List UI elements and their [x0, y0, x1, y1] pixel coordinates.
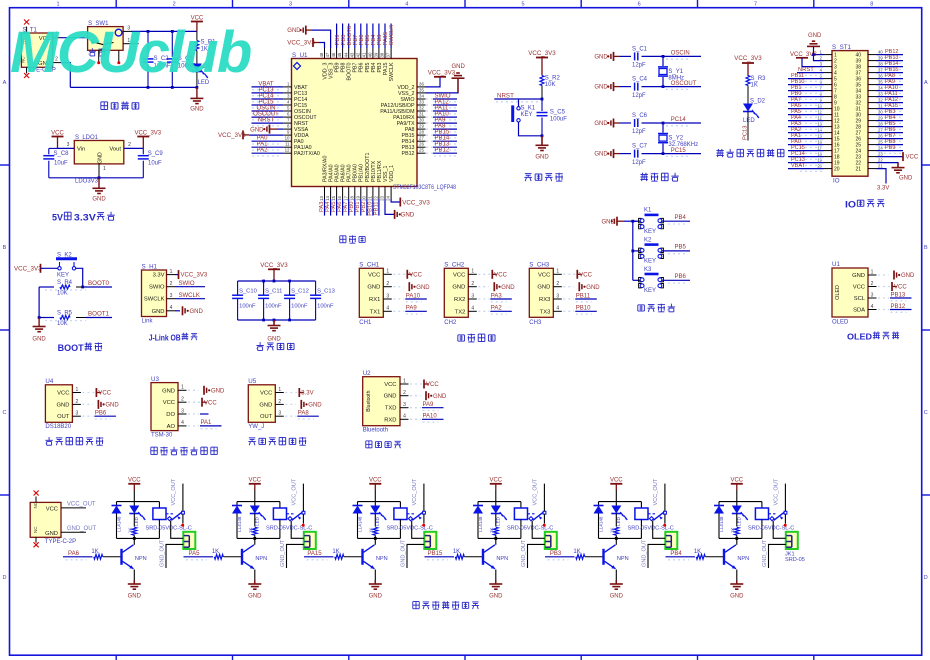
wire connector pin1 to switch of PB3 relay: [653, 521, 666, 539]
svg-text:33: 33: [419, 100, 424, 105]
svg-text:29: 29: [419, 124, 424, 129]
svg-text:1: 1: [278, 387, 281, 393]
svg-text:3: 3: [278, 411, 281, 417]
svg-text:Vout: Vout: [109, 147, 121, 153]
svg-text:GND_OUT: GND_OUT: [400, 539, 406, 567]
regulator S_LDO1 LDO3V3: [74, 141, 124, 164]
svg-text:NRST: NRST: [258, 118, 275, 124]
svg-text:GND: GND: [384, 394, 397, 400]
svg-text:1: 1: [871, 269, 874, 275]
svg-text:U3: U3: [151, 376, 159, 383]
wire left rail of keys: [632, 221, 634, 280]
relay switch contact of PA5 relay: [287, 513, 296, 515]
svg-text:37: 37: [878, 67, 883, 72]
svg-text:RX2: RX2: [454, 297, 465, 303]
svg-text:30: 30: [878, 109, 883, 114]
svg-text:S_C13: S_C13: [317, 289, 335, 295]
svg-text:VCC_3V3: VCC_3V3: [218, 132, 246, 139]
svg-text:S_K1: S_K1: [521, 106, 536, 112]
svg-text:RX1: RX1: [369, 297, 380, 303]
svg-text:GND: GND: [128, 594, 142, 600]
svg-text:21: 21: [855, 167, 861, 173]
svg-text:J-Link OB: J-Link OB: [149, 334, 181, 343]
net label SWIO wire from chip pin 34: [426, 98, 433, 100]
svg-text:6: 6: [638, 1, 641, 7]
svg-text:10: 10: [285, 136, 290, 141]
svg-text:32: 32: [419, 106, 424, 111]
svg-text:PA2/TX/A0: PA2/TX/A0: [294, 151, 320, 157]
svg-text:3: 3: [289, 1, 292, 7]
svg-text:LED: LED: [737, 516, 742, 526]
svg-text:GND: GND: [899, 176, 913, 182]
connector S_CH3: [529, 268, 553, 317]
capacitor S_C6 12pF: [620, 122, 631, 124]
IO port pin leads and numbers: [824, 54, 833, 56]
svg-text:OSCIN: OSCIN: [294, 109, 311, 115]
svg-text:VCC_3V3: VCC_3V3: [528, 50, 556, 57]
svg-text:VCC: VCC: [906, 155, 919, 161]
top rail of PB3 relay: [599, 501, 642, 503]
svg-text:S_C12: S_C12: [291, 289, 309, 295]
svg-text:GND: GND: [433, 394, 447, 400]
svg-text:13: 13: [319, 195, 324, 200]
svg-text:S_C7: S_C7: [632, 144, 648, 150]
svg-text:PB5: PB5: [675, 245, 687, 251]
svg-text:8MHz: 8MHz: [668, 75, 684, 81]
svg-text:1K: 1K: [573, 549, 580, 555]
svg-text:10uF: 10uF: [148, 160, 162, 166]
svg-text:PA8: PA8: [298, 411, 310, 417]
svg-text:A: A: [3, 80, 7, 86]
LED of PA6 relay: [133, 502, 135, 506]
LED of PA15 relay: [374, 502, 376, 506]
net GND_OUT wire of PA6 relay: [166, 544, 183, 568]
svg-text:VCC_3V3: VCC_3V3: [181, 273, 208, 279]
label power circuit: [101, 102, 108, 110]
net GND_OUT wire of PA15 relay: [407, 544, 424, 568]
svg-text:NPN: NPN: [376, 556, 388, 562]
net label OSCIN wire: [662, 55, 665, 58]
svg-text:NPN: NPN: [617, 556, 629, 562]
net label PA4 at IO pin 12: [800, 122, 822, 124]
wire S_T1 GND down to ground rail: [61, 63, 71, 88]
svg-text:PB6: PB6: [359, 62, 365, 72]
svg-text:42: 42: [355, 52, 360, 57]
svg-text:A: A: [924, 80, 928, 86]
net label PB6 wire from key K3: [662, 279, 690, 281]
svg-text:KEY: KEY: [644, 288, 656, 294]
relay unit transistor driver input net PA15: [304, 556, 334, 558]
capacitor S_C8 10uF: [49, 147, 58, 149]
net label PA10 at IO pin 34: [884, 92, 902, 94]
ground symbol GND of reset circuit: [541, 136, 543, 145]
svg-text:KEY: KEY: [644, 259, 656, 265]
net label OSCOUT wire to chip pin 6: [252, 119, 282, 121]
svg-text:VCC_OUT: VCC_OUT: [67, 502, 96, 508]
svg-text:1: 1: [170, 269, 173, 275]
net label SWCLK wire: [175, 298, 205, 300]
svg-text:VCC: VCC: [51, 130, 64, 136]
net label PB1 at IO pin 7: [800, 92, 822, 94]
svg-text:D: D: [924, 575, 928, 581]
svg-text:TSM-30: TSM-30: [151, 432, 173, 438]
svg-text:OLED: OLED: [835, 285, 841, 300]
ground stub at U1 pin 1: [878, 274, 889, 276]
net label PA7 wire at chip bottom pin 17: [348, 199, 350, 216]
svg-text:3.3V: 3.3V: [877, 186, 889, 192]
svg-text:12pF: 12pF: [632, 160, 646, 166]
relay coil SRD-05VDC-SL-C of PA15 relay: [399, 502, 401, 508]
power symbol VCC at IO pin 23: [877, 156, 904, 158]
svg-text:2: 2: [170, 281, 173, 287]
flyback diode LL4148 of PB4 relay: [718, 502, 720, 506]
net label PB13 wire from chip pin 26: [426, 146, 433, 148]
svg-text:100uF: 100uF: [550, 117, 567, 123]
key S_K2 boot button: [56, 257, 77, 260]
wire S_T1 VCC to switch S_SW1: [61, 37, 75, 39]
svg-text:PC13: PC13: [294, 91, 307, 97]
net label PB13 at U1 pin 3: [878, 297, 889, 299]
svg-text:PB2: PB2: [361, 202, 367, 213]
svg-text:44: 44: [343, 52, 348, 57]
svg-text:100nF: 100nF: [265, 304, 282, 310]
svg-text:SWCLK: SWCLK: [389, 25, 395, 46]
svg-text:3.3V: 3.3V: [153, 273, 165, 279]
svg-text:PA2: PA2: [257, 148, 269, 154]
svg-text:23: 23: [380, 195, 385, 200]
svg-text:VCC: VCC: [384, 382, 396, 388]
svg-text:VCC: VCC: [579, 273, 592, 279]
net label GND_OUT wire: [61, 531, 86, 533]
wire VCC top rail: [131, 30, 197, 32]
svg-text:GND: GND: [401, 211, 415, 218]
svg-text:S_C11: S_C11: [265, 289, 282, 295]
svg-text:GND: GND: [287, 28, 301, 34]
svg-text:NC: NC: [33, 526, 38, 533]
svg-text:OLED: OLED: [832, 320, 849, 326]
svg-text:32.768KHz: 32.768KHz: [668, 142, 698, 148]
flyback diode LL4148 of PB15 relay: [477, 502, 479, 506]
net label PA9 wire from chip pin 30: [426, 122, 433, 124]
svg-text:LED: LED: [616, 516, 621, 526]
module U2 Bluetooth: [363, 377, 400, 426]
svg-text:GND: GND: [367, 285, 380, 291]
svg-text:10K: 10K: [57, 291, 68, 297]
open wire at U3 pin 3: [188, 413, 199, 415]
net label PA15 wire at chip top pin 38: [384, 24, 386, 49]
svg-text:47: 47: [325, 52, 330, 57]
open contact with red dot of PB4 relay: [784, 514, 786, 523]
svg-text:VCC: VCC: [489, 477, 502, 483]
svg-text:100nF: 100nF: [239, 304, 256, 310]
svg-text:35: 35: [419, 87, 424, 92]
relay unit transistor driver input net PA6: [63, 556, 93, 558]
transistor Q NPN of PA15 relay: [361, 549, 363, 565]
svg-text:GND: GND: [501, 285, 515, 291]
pin 3 lead of S_SW1: [123, 30, 131, 32]
svg-text:PB15: PB15: [402, 133, 415, 139]
svg-text:38: 38: [380, 52, 385, 57]
svg-text:B: B: [3, 245, 7, 251]
svg-text:PB13: PB13: [891, 292, 906, 298]
svg-text:2: 2: [386, 281, 389, 287]
net label PB8 at IO pin 25: [884, 146, 902, 148]
svg-text:27: 27: [419, 136, 424, 141]
svg-text:LL4148: LL4148: [599, 516, 604, 532]
svg-text:PB9: PB9: [885, 145, 895, 151]
svg-text:GND: GND: [452, 64, 466, 70]
svg-text:TX2: TX2: [455, 309, 466, 315]
svg-text:VCC: VCC: [894, 285, 907, 291]
svg-text:LED: LED: [255, 516, 260, 526]
svg-text:45: 45: [337, 52, 342, 57]
svg-text:S_CH1: S_CH1: [359, 262, 380, 269]
label key circuit: [638, 305, 645, 311]
svg-text:22: 22: [374, 195, 379, 200]
svg-text:LDO3V3: LDO3V3: [75, 179, 99, 185]
svg-text:PB15: PB15: [428, 551, 443, 557]
switch S_SW1: [88, 27, 124, 51]
net label PC15 wire to chip pin 4: [252, 107, 282, 109]
svg-text:BOOT: BOOT: [58, 343, 85, 353]
svg-text:46: 46: [331, 52, 336, 57]
svg-text:VCC: VCC: [163, 400, 175, 406]
svg-text:CH1: CH1: [359, 320, 372, 326]
label liquid level detect module: [248, 438, 255, 445]
svg-text:10uF: 10uF: [54, 160, 68, 166]
net label NRST wire: [496, 101, 540, 103]
module U3 TSM-30: [151, 383, 178, 431]
ground stub at S_CH1 pin 2: [393, 286, 404, 288]
wire S_K2 to BOOT0 row: [76, 268, 83, 287]
net label PA1 at IO pin 15: [800, 140, 822, 142]
svg-text:S_ST1: S_ST1: [832, 44, 851, 51]
svg-text:GND: GND: [267, 337, 281, 343]
svg-text:26: 26: [878, 133, 883, 138]
ground symbol GND of PA6 relay: [133, 570, 135, 581]
terminal connector of PB15 relay: [545, 532, 557, 549]
relay switch contact of PA15 relay: [407, 513, 416, 515]
no-connect X on S_T1 top pin: [26, 27, 28, 34]
net GND_OUT wire of PB4 relay: [769, 544, 786, 568]
power VCC at U4 pin 1: [82, 392, 94, 394]
svg-text:OSCOUT: OSCOUT: [671, 81, 697, 87]
svg-text:3: 3: [170, 293, 173, 299]
net label PB3 at IO pin 30: [884, 116, 902, 118]
net label VBAT wire to chip pin 1: [252, 89, 282, 91]
svg-text:PB7: PB7: [353, 62, 359, 72]
svg-text:1: 1: [56, 1, 59, 7]
svg-text:PB8: PB8: [341, 62, 347, 72]
wire connector pin1 to switch of PA5 relay: [291, 521, 304, 539]
svg-text:NPN: NPN: [496, 556, 508, 562]
svg-text:GND: GND: [602, 219, 616, 225]
svg-text:GND: GND: [610, 594, 624, 600]
svg-text:SRD-05VDC-SL-C: SRD-05VDC-SL-C: [146, 526, 192, 532]
net label SWCLK wire at chip top pin 37: [390, 24, 392, 49]
svg-text:KEY: KEY: [57, 273, 69, 279]
svg-text:GND: GND: [537, 285, 550, 291]
module U5 YW_J: [248, 385, 275, 423]
resistor S_R3 1K: [746, 76, 750, 86]
svg-text:12pF: 12pF: [632, 63, 646, 69]
svg-text:35: 35: [878, 79, 883, 84]
svg-text:GND: GND: [162, 388, 175, 394]
net label PA7 at IO pin 9: [800, 104, 822, 106]
svg-text:VCC: VCC: [409, 273, 422, 279]
svg-text:TX3: TX3: [540, 309, 551, 315]
net VCC_OUT wire of PB4 relay: [784, 484, 786, 512]
svg-text:GND: GND: [852, 273, 865, 279]
net label BOOT0 wire at chip top pin 44: [348, 24, 350, 49]
svg-text:KEY: KEY: [644, 229, 656, 235]
svg-text:GND: GND: [250, 127, 264, 133]
svg-text:32: 32: [878, 97, 883, 102]
net label PB12 wire from chip pin 25: [426, 152, 433, 154]
relay switch contact of PB15 relay: [528, 513, 537, 515]
net label PB11 at IO pin 5: [800, 80, 822, 82]
net label PA4 wire at chip bottom pin 14: [330, 199, 332, 216]
capacitor S_C9 10uF: [142, 148, 144, 154]
svg-text:12pF: 12pF: [632, 129, 646, 135]
net label PA3 at IO pin 13: [800, 128, 822, 130]
svg-text:GND_OUT: GND_OUT: [280, 539, 286, 567]
no-connect X bottom of U6: [35, 537, 37, 543]
svg-text:GND_OUT: GND_OUT: [762, 539, 768, 567]
ground stub at U2 pin 2: [410, 395, 421, 397]
svg-text:48: 48: [319, 52, 324, 57]
svg-text:1K: 1K: [212, 549, 219, 555]
svg-text:2: 2: [278, 399, 281, 405]
svg-text:7: 7: [754, 1, 757, 7]
svg-text:PA6/A0: PA6/A0: [341, 164, 347, 182]
net label PB10 at IO pin 6: [800, 86, 822, 88]
net label PA10 at U2 pin 4: [410, 418, 421, 420]
svg-text:PB3: PB3: [377, 62, 383, 72]
ground symbol GND of BOOT circuit: [38, 318, 40, 327]
wire VCC_3V3 to chip VDDA pin 9: [249, 134, 283, 136]
svg-text:VCC_3V3: VCC_3V3: [428, 69, 456, 76]
svg-text:PB6: PB6: [675, 274, 687, 280]
svg-text:GND: GND: [259, 402, 272, 408]
svg-text:PA6: PA6: [337, 202, 343, 213]
net label NRST wire to chip pin 7: [252, 125, 282, 127]
svg-text:KEY: KEY: [521, 112, 533, 118]
svg-text:40: 40: [878, 49, 883, 54]
svg-text:PB1/A0: PB1/A0: [359, 164, 365, 182]
net label PB13 at IO pin 39: [884, 62, 902, 64]
ground symbol GND of PB3 relay: [615, 570, 617, 581]
ground stub at U5 pin 2: [285, 403, 296, 405]
svg-text:VCC: VCC: [369, 477, 382, 483]
power symbol VCC_3V3 at chip VDD_2: [426, 77, 441, 87]
ground symbol GND of filter: [273, 320, 275, 325]
net label VCC_3V3 at J-Link pin 1: [175, 274, 179, 276]
svg-text:19: 19: [355, 195, 360, 200]
net label PA1 wire to chip pin 11: [252, 149, 282, 151]
net label PB0 wire at chip bottom pin 18: [354, 199, 356, 216]
power VCC at U2 pin 1: [410, 383, 422, 385]
svg-text:VCC_3V3: VCC_3V3: [402, 199, 430, 206]
svg-text:SRD-05VDC-SL-C: SRD-05VDC-SL-C: [387, 526, 433, 532]
chip right pin names and leads: [417, 86, 426, 88]
svg-text:PC13: PC13: [258, 87, 274, 93]
net label PA5 wire at chip bottom pin 15: [336, 199, 338, 216]
wire ground bottom rail: [70, 86, 197, 88]
svg-text:SWCLK: SWCLK: [179, 293, 200, 299]
svg-text:PA5: PA5: [189, 551, 201, 557]
svg-text:33: 33: [878, 91, 883, 96]
svg-text:LL4148: LL4148: [478, 516, 483, 532]
no-connect X on S_T1 bottom pin: [26, 67, 28, 73]
net label PA9 at S_CH1 pin 4: [393, 310, 404, 312]
svg-text:GND: GND: [308, 403, 322, 409]
svg-text:S_Y1: S_Y1: [668, 69, 683, 75]
top rail of PB4 relay: [719, 501, 762, 503]
svg-text:S_C8: S_C8: [54, 151, 70, 157]
label bluetooth module: [366, 441, 372, 448]
relay coil SRD-05VDC-SL-C of PB15 relay: [520, 502, 522, 508]
connector S_ST1 IO expansion port body: [832, 51, 868, 177]
net VCC_OUT wire of PA6 relay: [182, 484, 184, 512]
ground symbol GND of PA5 relay: [254, 570, 256, 581]
terminal connector of PA5 relay: [304, 532, 316, 549]
net GND_OUT wire of PB15 relay: [528, 544, 545, 568]
net label VBAT at IO pin 20: [800, 170, 822, 172]
svg-text:31: 31: [878, 103, 883, 108]
net label PB12 at IO pin 40: [884, 56, 902, 58]
svg-text:PC13: PC13: [743, 125, 749, 140]
svg-text:GND: GND: [594, 121, 608, 127]
chip top pin names and leads: [324, 48, 326, 59]
bottom rail of PB4 relay: [719, 537, 762, 539]
filter top rail wire: [238, 280, 316, 282]
svg-text:VCC_OUT: VCC_OUT: [291, 478, 297, 505]
svg-text:PA4/A0: PA4/A0: [328, 164, 334, 182]
op-amp U1 main chip S_U1 STM32F103C8T6 body: [292, 59, 418, 187]
svg-text:3: 3: [871, 292, 874, 298]
net label BOOT0 wire: [45, 289, 86, 291]
svg-text:LL4148: LL4148: [358, 516, 363, 532]
svg-text:GND: GND: [594, 54, 608, 60]
svg-text:VCC_3V3: VCC_3V3: [134, 130, 161, 136]
svg-text:LL4148: LL4148: [117, 516, 122, 532]
net VCC_OUT wire of PA15 relay: [423, 484, 425, 512]
relay switch contact of PB4 relay: [769, 513, 778, 515]
svg-text:PB6: PB6: [359, 35, 365, 46]
net label PA5 at IO pin 11: [800, 116, 822, 118]
ground stub at S_CH3 pin 2: [563, 286, 574, 288]
svg-text:PA15: PA15: [307, 551, 322, 557]
svg-text:PA2: PA2: [491, 306, 503, 312]
net label PA15 at IO pin 31: [884, 110, 902, 112]
net label PA8 at IO pin 36: [884, 80, 902, 82]
net label PB10 at S_CH3 pin 4: [563, 310, 574, 312]
svg-text:K1: K1: [644, 208, 652, 214]
svg-text:S_R4: S_R4: [57, 280, 73, 286]
net label VCC_OUT wire: [61, 507, 86, 509]
LED S_D1: [192, 64, 202, 72]
resistor S_R5 10K: [39, 317, 54, 319]
svg-text:OLED: OLED: [847, 332, 872, 342]
svg-text:OUT: OUT: [57, 414, 70, 420]
svg-text:2: 2: [173, 1, 176, 7]
svg-text:25: 25: [878, 139, 883, 144]
svg-text:VBAT: VBAT: [791, 163, 806, 169]
svg-text:GND: GND: [45, 531, 58, 537]
svg-text:PB6: PB6: [95, 411, 107, 417]
svg-text:39: 39: [878, 55, 883, 60]
